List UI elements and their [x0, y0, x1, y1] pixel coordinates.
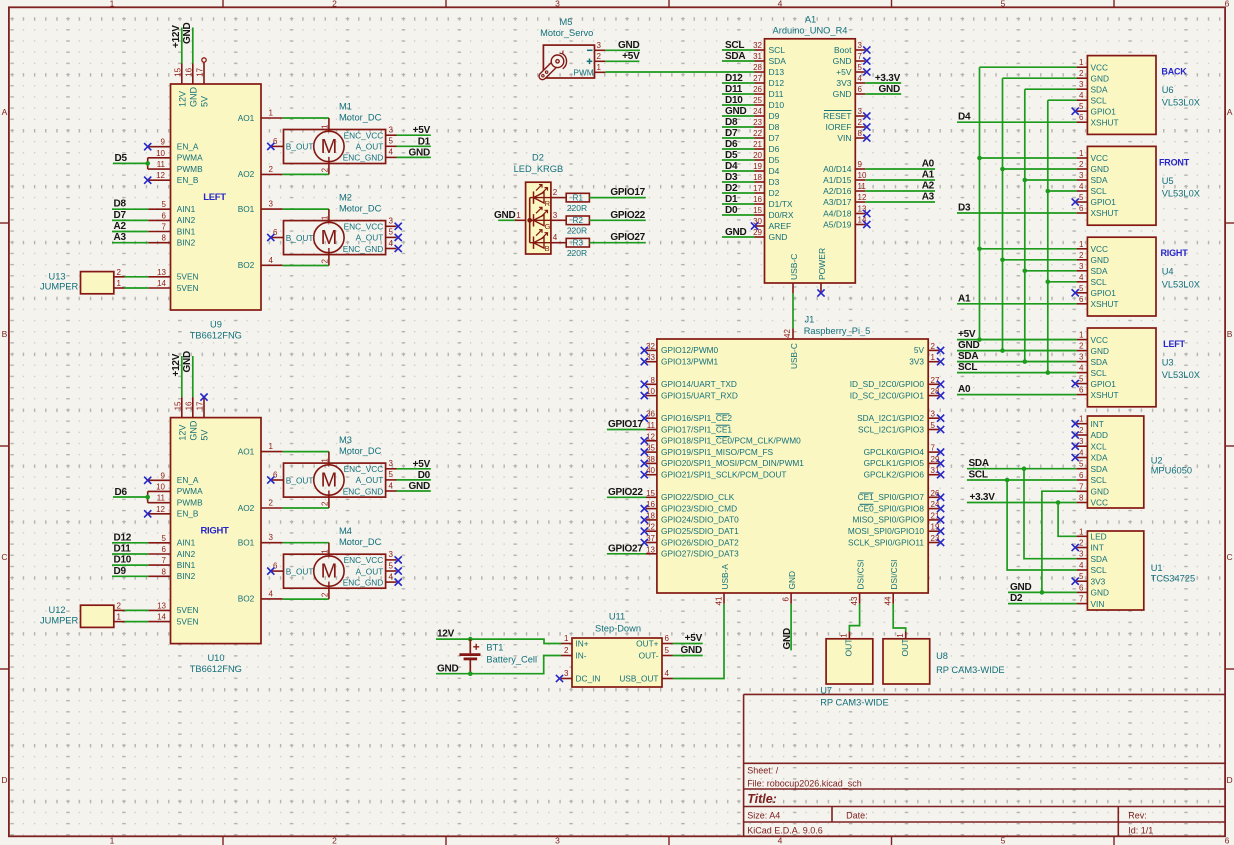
net label SCL sensor bus	[958, 362, 977, 373]
svg-text:LED_KRGB: LED_KRGB	[514, 164, 564, 174]
svg-text:SCLK_SPI0/GPIO11: SCLK_SPI0/GPIO11	[848, 537, 924, 547]
svg-text:4: 4	[389, 481, 394, 490]
svg-text:220R: 220R	[567, 248, 587, 258]
wire U3 VCC branch	[980, 339, 1077, 341]
svg-text:TCS34725: TCS34725	[1151, 574, 1195, 584]
svg-text:2: 2	[1079, 69, 1084, 78]
U6 pin 6 XSHUT	[1077, 113, 1119, 127]
junction GND bus at U5	[1000, 167, 1005, 172]
text FRONT	[1159, 157, 1190, 167]
no-connect X U2 XCL	[1072, 443, 1079, 450]
wire SCL branch to U1	[1007, 480, 1077, 570]
wire U4 SCL branch	[1048, 281, 1077, 283]
svg-text:Motor_DC: Motor_DC	[339, 203, 382, 213]
wire U12 to U10 pin 13	[125, 609, 149, 611]
U9 pin 14 5VEN	[148, 279, 198, 293]
no-connect X A1 A4/D18	[863, 210, 870, 217]
svg-text:6: 6	[858, 85, 863, 94]
J1 pin 21 MISO_SPI0/GPIO9	[853, 511, 940, 524]
J1 pin 12 GPIO18/SPI1_CE0/PCM_CLK/PWM0	[646, 432, 801, 445]
svg-text:10: 10	[646, 387, 655, 396]
net label +5V sensor bus	[958, 329, 976, 340]
net label GPIO22	[610, 210, 645, 221]
svg-text:3: 3	[858, 41, 863, 50]
svg-text:IN-: IN-	[576, 651, 587, 661]
svg-text:XSHUT: XSHUT	[1091, 390, 1119, 400]
svg-text:12: 12	[858, 193, 867, 202]
junction VCC bus at U3	[977, 337, 982, 342]
svg-text:M: M	[321, 136, 338, 158]
A1 pin 29 GND	[753, 228, 787, 242]
junction +3.3V branch	[1056, 500, 1061, 505]
wire U13 to U9 pin 14	[125, 287, 149, 289]
U9 reference	[210, 319, 222, 329]
U1 value TCS34725	[1151, 574, 1195, 584]
U6 pin 1 VCC	[1077, 58, 1108, 72]
svg-text:1: 1	[1079, 331, 1084, 340]
svg-text:A0/D14: A0/D14	[823, 164, 852, 174]
svg-text:U1: U1	[1151, 563, 1163, 573]
net label +5V	[413, 459, 431, 470]
svg-text:D10: D10	[114, 555, 132, 566]
svg-text:AO1: AO1	[238, 446, 255, 456]
svg-text:17: 17	[753, 184, 762, 193]
no-connect X A1 RESET	[863, 112, 870, 119]
A1 pin 26 D11	[753, 85, 784, 99]
svg-text:USB_OUT: USB_OUT	[619, 674, 658, 684]
junction SDA bus at U5	[1023, 178, 1028, 183]
junction GND at U1	[1040, 590, 1045, 595]
J1 pin 19 MOSI_SPI0/GPIO10	[848, 523, 940, 536]
no-connect X A1 AREF	[751, 222, 758, 229]
net label D7 at A1 D7	[725, 128, 738, 139]
wire A1 GND to GND	[865, 93, 901, 95]
svg-text:ENC_GND: ENC_GND	[343, 486, 384, 496]
svg-text:M: M	[321, 470, 338, 492]
J1 pin 43 DSI/CSI	[850, 560, 866, 606]
wire U3 GND branch	[1003, 350, 1077, 352]
svg-text:21: 21	[753, 140, 762, 149]
svg-text:3: 3	[931, 410, 936, 419]
svg-text:D11: D11	[114, 544, 132, 555]
wire J1 GND down	[790, 604, 792, 651]
U13 value JUMPER	[40, 282, 79, 292]
net label D10 at A1 D10	[725, 95, 743, 106]
svg-text:2: 2	[269, 499, 274, 508]
svg-text:CE0_SPI0/GPIO8: CE0_SPI0/GPIO8	[858, 503, 925, 513]
svg-text:ENC_VCC: ENC_VCC	[344, 464, 384, 474]
U4 pin 6 XSHUT	[1077, 295, 1119, 309]
U11 reference	[609, 612, 625, 622]
no-connect X J1 GPCLK1/GPIO5 right	[937, 460, 944, 467]
U6 pin 4 SCL	[1077, 91, 1107, 105]
svg-text:17: 17	[196, 401, 205, 410]
svg-text:A0: A0	[922, 159, 935, 170]
svg-text:IOREF: IOREF	[826, 122, 852, 132]
wire and pin 1 M3	[283, 452, 330, 465]
A1 pin 24 D9	[753, 107, 780, 121]
svg-text:GND: GND	[1091, 164, 1109, 174]
U10 value TB6612FNG	[190, 664, 242, 674]
unconnected pin marker U9 pin 17	[202, 58, 206, 62]
svg-text:4: 4	[553, 233, 558, 242]
wire SCL to A1 SCL	[722, 49, 755, 51]
J1 pin 40 GPIO21/SPI1_SCLK/PCM_DOUT	[646, 466, 786, 479]
svg-text:10: 10	[858, 171, 867, 180]
svg-text:GND: GND	[182, 23, 193, 45]
M5 pin 2 plus	[587, 52, 606, 64]
svg-text:22: 22	[646, 523, 655, 532]
svg-text:26: 26	[931, 489, 940, 498]
wire A1 USB-C to J1	[792, 293, 794, 328]
net label +3.3V at A1 3V3	[875, 73, 901, 84]
M2 pin 3 ENC_VCC	[344, 217, 397, 232]
svg-text:PWMB: PWMB	[177, 498, 203, 508]
svg-text:23: 23	[931, 534, 940, 543]
svg-text:3: 3	[555, 0, 560, 8]
svg-text:Rev:: Rev:	[1128, 810, 1147, 820]
svg-text:PWMA: PWMA	[177, 486, 203, 496]
svg-text:37: 37	[646, 534, 655, 543]
svg-text:1: 1	[1079, 58, 1084, 67]
no-connect X U2 ADD	[1072, 431, 1079, 438]
bus wire +5V vertical	[979, 67, 981, 339]
J1 pin 7 GPCLK0/GPIO4	[864, 444, 939, 457]
svg-text:32: 32	[646, 342, 655, 351]
A1 pin 5 +5V	[836, 63, 865, 77]
svg-text:D11: D11	[769, 89, 784, 99]
U5 value VL53L0X	[1162, 189, 1200, 199]
no-connect X J1 3V3 right	[937, 358, 944, 365]
U10 pin 1 AO1	[238, 442, 283, 456]
junction battery +	[468, 637, 473, 642]
M5 value Motor_Servo	[540, 28, 593, 38]
no-connect X J1 GPIO19/SPI1_MISO/PCM_FS	[641, 449, 648, 456]
svg-text:9: 9	[161, 138, 166, 147]
net label SDA at A1 SDA	[725, 51, 745, 62]
svg-text:19: 19	[931, 523, 940, 532]
no-connect X J1 GPIO18/SPI1_CE0/PCM_CLK/PWM0	[641, 437, 648, 444]
no-connect X U10 EN_A	[144, 477, 151, 484]
svg-text:ENC_GND: ENC_GND	[343, 244, 384, 254]
M1 pin 6 B_OUT	[272, 137, 313, 152]
svg-text:5: 5	[1001, 836, 1006, 845]
net label A3	[114, 232, 127, 243]
svg-text:MISO_SPI0/GPIO9: MISO_SPI0/GPIO9	[853, 515, 925, 525]
no-connect X J1 GPCLK0/GPIO4 right	[937, 449, 944, 456]
wire A0 to U3 XSHUT	[957, 394, 1077, 396]
svg-text:ENC_GND: ENC_GND	[343, 577, 384, 587]
title block	[744, 694, 1226, 836]
svg-text:GND: GND	[1091, 73, 1109, 83]
U3 reference	[1162, 357, 1174, 367]
svg-text:4: 4	[1079, 273, 1084, 282]
U10 pin 13 5VEN	[148, 601, 198, 615]
svg-text:6: 6	[1079, 386, 1084, 395]
svg-text:31: 31	[931, 466, 940, 475]
A1 pin 17 D2	[753, 184, 780, 198]
svg-text:U4: U4	[1162, 267, 1174, 277]
svg-text:GND: GND	[958, 340, 980, 351]
svg-text:4: 4	[665, 669, 670, 678]
svg-text:42: 42	[783, 329, 792, 338]
svg-text:1: 1	[840, 633, 849, 638]
J1 pin 37 GPIO26/SDIO_DAT2	[646, 534, 739, 547]
A1 pin 7 GND	[833, 52, 866, 66]
U3 pin 5 GPIO1	[1077, 375, 1117, 389]
net label A1	[958, 293, 971, 304]
wire D12 to U10 AIN1	[112, 542, 148, 544]
U9 pin 2 AO2	[238, 165, 283, 179]
U1 reference	[1151, 563, 1163, 573]
svg-text:GND: GND	[1091, 487, 1109, 497]
svg-text:MOSI_SPI0/GPIO10: MOSI_SPI0/GPIO10	[848, 526, 924, 536]
svg-text:D6: D6	[725, 139, 738, 150]
net label +5V at U11	[685, 633, 703, 644]
wire GND to U1	[1008, 591, 1077, 593]
svg-text:A1: A1	[805, 15, 816, 25]
svg-text:1: 1	[117, 613, 122, 622]
wire D12 to A1 D12	[722, 82, 755, 84]
svg-text:U8: U8	[936, 651, 948, 661]
net label D12	[114, 532, 132, 543]
J1 pin 41 USB-A	[715, 564, 731, 606]
no-connect X J1 CE1_SPI0/GPIO7 right	[937, 494, 944, 501]
svg-text:+3.3V: +3.3V	[970, 492, 996, 503]
svg-text:Title:: Title:	[747, 792, 777, 806]
svg-text:A0: A0	[958, 384, 971, 395]
J1 pin 35 GPIO19/SPI1_MISO/PCM_FS	[646, 444, 774, 457]
U8 pin 1 OUT	[896, 632, 910, 657]
svg-text:AIN2: AIN2	[177, 549, 196, 559]
svg-text:2: 2	[320, 259, 329, 264]
svg-text:21: 21	[931, 511, 940, 520]
J1 pin 38 GPIO20/SPI1_MOSI/PCM_DIN/PWM1	[646, 455, 804, 468]
bus wire GND vertical	[1002, 78, 1004, 350]
U6 pin 5 GPIO1	[1077, 102, 1117, 116]
no-connect X J1 GPCLK2/GPIO6 right	[937, 471, 944, 478]
servo M5 body	[543, 45, 594, 78]
svg-text:D5: D5	[115, 153, 128, 164]
net label A0	[958, 384, 971, 395]
wire J1 USB-A to U11 USB_OUT	[673, 604, 724, 679]
net label A2	[114, 221, 127, 232]
svg-text:3: 3	[269, 200, 274, 209]
wire M5 GND	[605, 49, 640, 51]
U3 pin 1 VCC	[1077, 331, 1108, 345]
svg-text:GPIO22: GPIO22	[610, 210, 645, 221]
svg-text:3: 3	[389, 217, 394, 226]
ic U10 TB6612FNG body	[171, 418, 262, 644]
svg-text:RESET: RESET	[823, 111, 851, 121]
svg-text:5VEN: 5VEN	[177, 272, 199, 282]
svg-text:1: 1	[1079, 240, 1084, 249]
svg-text:GPIO20/SPI1_MOSI/PCM_DIN/PWM1: GPIO20/SPI1_MOSI/PCM_DIN/PWM1	[661, 458, 804, 468]
battery BT1	[459, 639, 480, 674]
wire D1 to A1 D1/TX	[722, 203, 755, 205]
svg-text:B: B	[1227, 329, 1233, 339]
J1 pin 8 GPIO14/UART_TXD	[646, 376, 737, 389]
svg-text:A: A	[1227, 107, 1233, 117]
J1 pin 16 GPIO23/SDIO_CMD	[646, 500, 737, 513]
net label D0	[418, 470, 431, 481]
svg-text:SDA_I2C1/GPIO2: SDA_I2C1/GPIO2	[857, 413, 924, 423]
svg-text:5VEN: 5VEN	[177, 605, 199, 615]
wire U12 to U10 pin 14	[125, 621, 149, 623]
svg-text:3V3: 3V3	[836, 78, 851, 88]
U10 pin 7 BIN1	[148, 556, 195, 570]
net label GPIO27	[608, 544, 643, 555]
svg-text:2: 2	[564, 646, 569, 655]
bus wire SCL vertical	[1047, 100, 1049, 372]
svg-text:7: 7	[162, 556, 167, 565]
svg-text:A1: A1	[922, 170, 935, 181]
net label GND	[409, 481, 431, 492]
power label +12V above U9	[171, 25, 182, 64]
svg-text:2: 2	[1079, 342, 1084, 351]
svg-text:8: 8	[162, 234, 167, 243]
svg-text:3: 3	[564, 669, 569, 678]
svg-text:1: 1	[110, 0, 115, 8]
svg-text:D2: D2	[532, 153, 544, 163]
svg-text:R1: R1	[573, 193, 584, 202]
svg-text:11: 11	[858, 182, 867, 191]
svg-text:AREF: AREF	[769, 221, 792, 231]
svg-text:14: 14	[157, 279, 166, 288]
svg-text:5: 5	[162, 200, 167, 209]
svg-text:M5: M5	[560, 17, 573, 27]
A1 pin 23 D8	[753, 118, 780, 132]
camera U8 body	[883, 639, 930, 684]
no-connect X U1 INT	[1072, 544, 1079, 551]
svg-text:BO2: BO2	[238, 594, 255, 604]
wire U5 SCL branch	[1048, 190, 1077, 192]
wire R3 to GPIO27	[589, 242, 645, 244]
no-connect X A1 IOREF	[863, 123, 870, 130]
J1 pin 42 USB-C	[783, 328, 799, 369]
no-connect X J1 SCLK_SPI0/GPIO11 right	[937, 539, 944, 546]
svg-text:1: 1	[110, 836, 115, 845]
svg-text:Step-Down: Step-Down	[595, 623, 641, 633]
svg-text:VL53L0X: VL53L0X	[1162, 279, 1200, 289]
svg-text:+5V: +5V	[685, 633, 703, 644]
led D2 internal bus	[529, 198, 531, 243]
svg-text:GPIO27: GPIO27	[610, 232, 645, 243]
junction SDA bus at U4	[1023, 269, 1028, 274]
U9 pin 8 BIN2	[148, 234, 195, 248]
M5 pin 3 minus	[587, 41, 605, 51]
svg-text:12V: 12V	[178, 91, 188, 107]
U11 pin 4 USB_OUT	[619, 669, 673, 684]
svg-text:U2: U2	[1151, 456, 1163, 466]
J1 pin 29 GPCLK1/GPIO5	[864, 455, 940, 468]
svg-text:D2: D2	[1010, 593, 1023, 604]
svg-text:13: 13	[157, 268, 166, 277]
ic U9 TB6612FNG body	[171, 84, 262, 310]
D2 reference	[532, 153, 544, 163]
U1 pin 3 SDA	[1077, 550, 1108, 564]
svg-text:D12: D12	[114, 532, 132, 543]
A1 pin 42 USB-C	[789, 254, 799, 294]
wire U5 GND branch	[1003, 168, 1077, 170]
svg-text:6: 6	[1079, 204, 1084, 213]
J1 pin 22 GPIO25/SDIO_DAT1	[646, 523, 739, 536]
wire A1 A1/D15 to A1	[865, 179, 935, 181]
no-connect X J1 GPIO25/SDIO_DAT1	[641, 528, 648, 535]
U2 pin 2 ADD	[1077, 426, 1108, 440]
svg-text:U3: U3	[1162, 357, 1174, 367]
R2 value 220R	[567, 226, 587, 236]
svg-text:VL53L0X: VL53L0X	[1162, 189, 1200, 199]
svg-text:11: 11	[157, 160, 166, 169]
U10 pin 3 BO1	[238, 533, 283, 547]
wire M3 A_OUT	[397, 479, 431, 481]
svg-text:2: 2	[332, 0, 337, 8]
no-connect X M2 A_OUT	[395, 234, 402, 241]
no-connect X M4 B_OUT	[267, 568, 274, 575]
wire M1 ENC_VCC	[397, 134, 431, 136]
no-connect X J1 ID_SC_I2C0/GPIO1 right	[937, 392, 944, 399]
svg-text:VCC: VCC	[1091, 62, 1109, 72]
U1 pin 7 VIN	[1077, 595, 1105, 609]
svg-text:PWMB: PWMB	[177, 164, 203, 174]
no-connect X U2 XDA	[1072, 454, 1079, 461]
A1 pin 11 A2/D16	[823, 182, 866, 196]
svg-text:12: 12	[156, 505, 165, 514]
U2 pin 3 XCL	[1077, 437, 1107, 451]
svg-text:7: 7	[858, 52, 863, 61]
svg-text:M: M	[321, 227, 338, 249]
M2 reference	[339, 193, 352, 203]
M4 reference	[339, 526, 352, 536]
svg-text:2: 2	[320, 501, 329, 506]
no-connect X M4 A_OUT	[395, 567, 402, 574]
svg-text:2: 2	[117, 601, 122, 610]
svg-text:22: 22	[753, 129, 762, 138]
U10 pin 16 GND	[185, 397, 199, 441]
svg-text:1: 1	[516, 211, 521, 220]
junction D2 common	[528, 218, 532, 222]
svg-text:D3: D3	[958, 203, 971, 214]
J1 pin 13 GPIO27/SDIO_DAT3	[646, 545, 739, 558]
svg-text:M3: M3	[339, 435, 352, 445]
junction GND bus at U3	[1000, 348, 1005, 353]
svg-text:3: 3	[1079, 80, 1084, 89]
power label +12V above U10	[171, 353, 182, 397]
wire D6 to U10	[113, 496, 148, 498]
resistor R2	[566, 216, 589, 225]
wire GPIO17 to J1	[607, 429, 646, 431]
U5 pin 1 VCC	[1077, 149, 1108, 163]
svg-text:2: 2	[117, 268, 122, 277]
svg-text:SDA: SDA	[1091, 175, 1109, 185]
svg-text:1: 1	[320, 458, 329, 463]
wire A1 to U4 XSHUT	[957, 303, 1077, 305]
A1 pin 20 D5	[753, 151, 780, 165]
svg-text:25: 25	[753, 96, 762, 105]
svg-text:220R: 220R	[567, 226, 587, 236]
text RIGHT	[200, 526, 229, 537]
U5 pin 5 GPIO1	[1077, 193, 1117, 207]
U10 pin 10 PWMA	[148, 482, 203, 496]
wire A1 A3/D17 to A3	[865, 201, 935, 203]
svg-text:3V3: 3V3	[909, 357, 924, 367]
wire A1 3V3 to +3.3V	[865, 82, 901, 84]
svg-text:GPIO14/UART_TXD: GPIO14/UART_TXD	[661, 379, 737, 389]
svg-text:OUT: OUT	[900, 639, 910, 657]
A1 pin 3 Boot	[834, 41, 865, 55]
svg-text:SCL: SCL	[1091, 368, 1108, 378]
